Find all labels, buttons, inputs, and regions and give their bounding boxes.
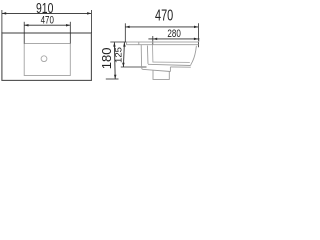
svg-text:180: 180	[99, 47, 114, 69]
svg-text:470: 470	[155, 8, 173, 25]
svg-text:125: 125	[114, 47, 125, 63]
svg-text:280: 280	[167, 28, 181, 40]
